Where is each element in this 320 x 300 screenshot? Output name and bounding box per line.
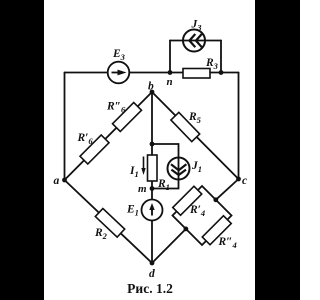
node n xyxy=(168,70,173,75)
current source J1 xyxy=(168,158,190,180)
source E3 xyxy=(108,62,130,84)
source E1 xyxy=(142,200,163,221)
right black border bar xyxy=(255,0,300,300)
wire: diagonal a to b xyxy=(65,92,153,180)
resistor R'4 xyxy=(173,186,202,215)
svg-text:b: b xyxy=(148,81,154,93)
junction J1 top xyxy=(150,142,155,147)
svg-text:m: m xyxy=(138,183,147,195)
wire: J3 loop right vertical xyxy=(220,41,222,73)
node c xyxy=(236,177,241,182)
junction J3 loop right xyxy=(219,70,224,75)
wire: J3 loop left vertical xyxy=(169,41,171,73)
wire: parallel-group junction to d xyxy=(152,229,186,263)
resistor R2 xyxy=(95,209,124,238)
junction R4 group top xyxy=(213,197,218,202)
wire: top rail E3 to corner, through n and R3 xyxy=(129,72,238,74)
svg-text:n: n xyxy=(167,76,173,88)
wire: parallel diamond outline R4 group xyxy=(173,186,232,245)
node a xyxy=(62,178,67,183)
resistor R''6 xyxy=(113,103,142,132)
svg-text:c: c xyxy=(242,175,247,187)
wire: top rail left segment to E3 xyxy=(65,72,108,74)
node m xyxy=(150,186,155,191)
wire: m through E1 to d xyxy=(151,189,153,264)
resistor R1 xyxy=(148,155,158,181)
svg-text:a: a xyxy=(54,175,60,187)
current source J3 xyxy=(183,30,205,52)
wire: middle branch b to m xyxy=(151,92,153,189)
junction R4 group bottom xyxy=(184,227,189,232)
current arrow I1 xyxy=(143,157,145,170)
node d xyxy=(150,261,155,266)
left black border bar xyxy=(0,0,44,300)
svg-text:d: d xyxy=(149,268,155,280)
svg-text:Рис. 1.2: Рис. 1.2 xyxy=(127,281,173,296)
resistor R'6 xyxy=(80,135,109,164)
wire: diagonal a to d xyxy=(65,180,153,263)
wire: diagonal b to c xyxy=(152,92,239,179)
wire: J3 loop top horizontal (passes through J3 circle) xyxy=(170,40,221,42)
wire: J1 loop xyxy=(152,144,179,189)
node b xyxy=(150,90,155,95)
resistor R3 xyxy=(183,69,210,79)
wire: c to parallel-group junction xyxy=(216,179,239,200)
resistor R5 xyxy=(171,112,200,141)
wire: right vertical to c xyxy=(238,73,240,180)
wire: left vertical a to top rail xyxy=(64,73,66,181)
resistor R''4 xyxy=(202,216,231,245)
